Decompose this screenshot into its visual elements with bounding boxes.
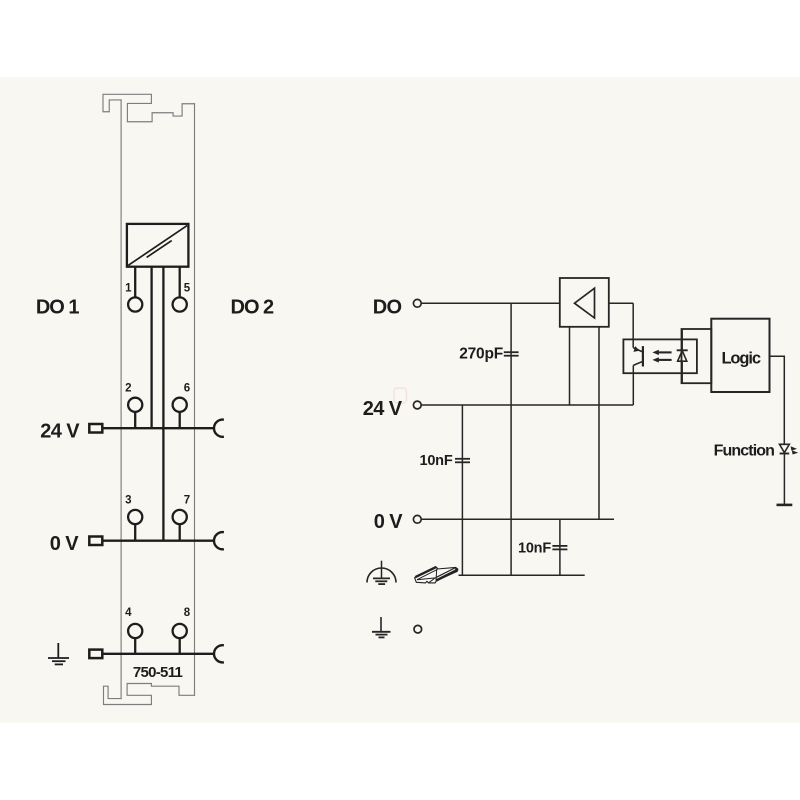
pin 4 bbox=[128, 624, 142, 638]
chassis earth bar 3 bbox=[378, 583, 385, 585]
wire pin 8 to ground rail bbox=[179, 639, 181, 654]
svg-text:270pF: 270pF bbox=[459, 346, 503, 363]
wire emitter to 24V bbox=[632, 365, 634, 405]
wire 10nF branch 2 bbox=[559, 519, 561, 575]
earth symbol stem bbox=[380, 617, 382, 632]
earth symbol bar 2 bbox=[376, 634, 388, 636]
svg-text:Function: Function bbox=[714, 442, 774, 459]
pin 2 bbox=[128, 398, 142, 412]
function LED cathode bar bbox=[780, 453, 790, 455]
wire 0V rail schematic bbox=[422, 518, 614, 520]
terminal contact 24V bbox=[89, 424, 102, 433]
light arrow lower shaft bbox=[658, 359, 671, 361]
pin 8 bbox=[173, 624, 187, 638]
node 0V bbox=[413, 515, 421, 523]
phototransistor collector arrow bbox=[634, 346, 640, 352]
node 24V bbox=[413, 401, 421, 409]
wire 270pF branch bbox=[510, 303, 512, 575]
chassis earth bar 2 bbox=[375, 580, 387, 582]
wire 24V rail schematic bbox=[422, 404, 633, 406]
amplifier U2 bbox=[560, 278, 609, 327]
function LED triangle bbox=[780, 444, 790, 452]
module ground symbol bar 1 bbox=[48, 657, 69, 659]
capacitor C3 10nF plates bbox=[552, 546, 567, 550]
svg-text:3: 3 bbox=[125, 494, 131, 506]
pin 6 bbox=[173, 398, 187, 412]
wire amplifier output bbox=[609, 302, 633, 304]
pin 3 bbox=[128, 510, 142, 524]
wire 10nF branch 1 bbox=[461, 405, 463, 575]
svg-text:6: 6 bbox=[184, 383, 190, 395]
LED triangle bbox=[678, 351, 687, 362]
light arrow lower head bbox=[652, 357, 658, 362]
wire box to pin 1 bbox=[134, 267, 136, 297]
svg-text:10nF: 10nF bbox=[518, 540, 551, 556]
phototransistor base bar bbox=[642, 346, 644, 366]
LED cathode bar bbox=[677, 349, 688, 351]
function LED light arrow 2 bbox=[792, 450, 798, 454]
LED wire bottom bbox=[681, 361, 683, 383]
svg-text:24 V: 24 V bbox=[40, 421, 80, 443]
module ground symbol stem bbox=[57, 643, 59, 658]
clamp opening 24V bbox=[214, 420, 224, 437]
electronics box diagonal bbox=[128, 226, 187, 266]
DIN rail icon bbox=[415, 567, 458, 583]
LED wire top bbox=[681, 329, 683, 350]
svg-text:7: 7 bbox=[184, 494, 190, 506]
node DO bbox=[413, 299, 421, 307]
wire logic to function LED bbox=[770, 356, 785, 444]
svg-text:Logic: Logic bbox=[721, 350, 760, 368]
function LED light arrow 1 bbox=[791, 446, 797, 450]
24V rail bbox=[103, 427, 213, 429]
wire pin 2 to 24V rail bbox=[134, 413, 136, 429]
chassis earth stem bbox=[381, 561, 383, 579]
earth symbol bar 1 bbox=[372, 631, 391, 633]
earth symbol bar 3 bbox=[379, 636, 385, 638]
function ground bar bbox=[777, 504, 793, 507]
svg-text:750-511: 750-511 bbox=[133, 664, 183, 681]
svg-text:0 V: 0 V bbox=[374, 511, 403, 533]
svg-text:10nF: 10nF bbox=[419, 453, 452, 469]
module housing right edge bbox=[194, 104, 196, 696]
amplifier triangle bbox=[575, 288, 595, 318]
wire function LED to ground bbox=[783, 454, 785, 505]
wire box to 0V rail bbox=[162, 267, 164, 541]
pin 1 bbox=[128, 297, 142, 311]
terminal contact ground bbox=[89, 650, 102, 659]
wire pin 3 to 0V rail bbox=[134, 525, 136, 541]
wire collector from amplifier bbox=[632, 303, 634, 348]
light arrow upper head bbox=[652, 350, 658, 355]
pin 5 bbox=[173, 297, 187, 311]
optocoupler box bbox=[623, 339, 697, 373]
ground rail bbox=[103, 653, 213, 655]
svg-text:4: 4 bbox=[125, 607, 132, 619]
svg-text:DO: DO bbox=[373, 296, 402, 318]
wire amplifier stem to 24V bbox=[569, 327, 571, 405]
module housing left edge bbox=[120, 100, 122, 699]
svg-text:1: 1 bbox=[125, 283, 132, 295]
svg-text:DO 2: DO 2 bbox=[231, 297, 275, 319]
capacitor C2 10nF plates bbox=[455, 459, 470, 463]
svg-text:8: 8 bbox=[184, 607, 191, 619]
capacitor C1 270pF plates bbox=[504, 352, 519, 356]
node earth bbox=[414, 625, 422, 633]
svg-text:5: 5 bbox=[184, 283, 191, 295]
wire box to pin 5 bbox=[179, 267, 181, 297]
svg-text:0 V: 0 V bbox=[50, 533, 79, 555]
phototransistor emitter diagonal bbox=[633, 361, 643, 365]
svg-text:24 V: 24 V bbox=[363, 398, 403, 420]
svg-text:2: 2 bbox=[125, 383, 131, 395]
wire box to 24V rail bbox=[150, 267, 152, 429]
clamp opening 0V bbox=[214, 532, 224, 549]
LED box bbox=[682, 329, 712, 383]
module ground symbol bar 3 bbox=[55, 663, 63, 665]
pin 7 bbox=[173, 510, 187, 524]
svg-text:DO 1: DO 1 bbox=[36, 297, 80, 319]
module ground symbol bar 2 bbox=[52, 660, 66, 662]
electronics box inner diagonal bbox=[147, 241, 172, 258]
terminal contact 0V bbox=[89, 537, 102, 546]
electronics box U1 bbox=[127, 224, 188, 267]
clamp opening ground bbox=[214, 645, 224, 662]
module housing bottom profile bbox=[104, 684, 195, 705]
schematic ground rail bbox=[459, 574, 585, 576]
wire DO to amplifier bbox=[422, 302, 560, 304]
logic box U3 bbox=[711, 319, 769, 392]
wire pin 4 to ground rail bbox=[134, 639, 136, 654]
0V rail bbox=[103, 540, 213, 542]
wire pin 7 to 0V rail bbox=[179, 525, 181, 541]
phototransistor collector diagonal bbox=[633, 348, 642, 352]
module housing top profile bbox=[103, 94, 195, 121]
chassis earth bar 1 bbox=[373, 577, 390, 579]
chassis earth arc bbox=[367, 568, 396, 583]
light arrow upper shaft bbox=[658, 351, 671, 353]
wire pin 6 to 24V rail bbox=[179, 413, 181, 429]
wire amplifier stem to 0V bbox=[598, 327, 600, 520]
